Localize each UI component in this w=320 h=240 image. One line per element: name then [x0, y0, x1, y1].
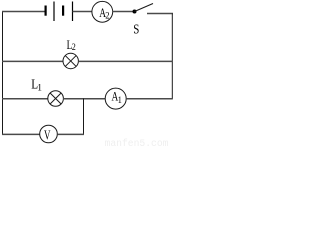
svg-text:1: 1 — [118, 94, 122, 105]
switch S blade — [135, 4, 154, 12]
wire: L2 row left segment — [2, 60, 63, 62]
svg-text:2: 2 — [72, 41, 76, 52]
lamp L2 — [63, 53, 78, 68]
svg-text:manfen5.com: manfen5.com — [105, 138, 169, 149]
wire: battery to ammeter A2 — [73, 11, 93, 13]
svg-text:S: S — [133, 21, 139, 37]
wire: voltmeter tap vertical — [83, 99, 85, 135]
wire: top row from left corner to battery — [2, 11, 45, 13]
lamp L1 — [48, 91, 64, 107]
switch S pivot dot — [133, 10, 137, 14]
svg-text:1: 1 — [37, 84, 42, 94]
svg-text:2: 2 — [105, 10, 110, 21]
wire: L2 row right segment — [78, 60, 173, 62]
battery (two cells) — [45, 2, 73, 22]
wire: L1 row middle segment (lamp to A1, with tap node) — [63, 98, 105, 100]
label L2 — [67, 38, 76, 52]
wire: L1 row left segment — [2, 98, 48, 100]
wire: switch fixed contact stub — [147, 13, 173, 15]
label L1 — [31, 77, 42, 94]
ammeter A1 — [105, 88, 126, 109]
wire: left vertical bus — [2, 11, 4, 135]
wire: L1 row right segment — [126, 98, 173, 100]
wire: A2 to switch pivot — [113, 11, 134, 13]
wire: right vertical bus — [171, 14, 173, 100]
svg-text:V: V — [44, 127, 51, 142]
wire: bottom row left segment — [2, 133, 40, 135]
ammeter A2 — [92, 1, 113, 22]
wire: bottom row right segment — [57, 133, 84, 135]
voltmeter V — [40, 125, 58, 143]
